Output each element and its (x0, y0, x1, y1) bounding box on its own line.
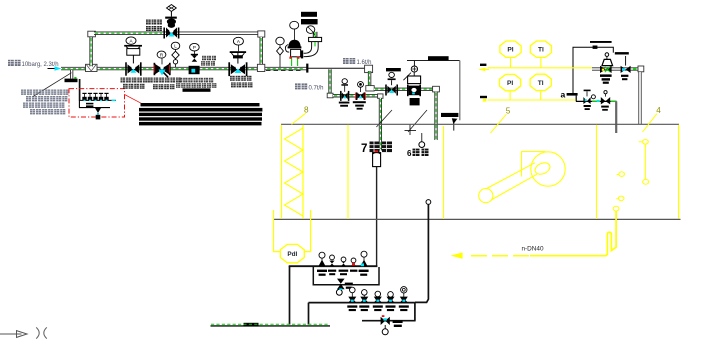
filter right wall yellow (302, 125, 304, 219)
branch valve SV1 (340, 84, 349, 101)
svg-text:PdI: PdI (287, 251, 297, 258)
BV1 label bar (386, 68, 401, 71)
humidifier branch green trace (329, 70, 331, 93)
reheat elbow down (615, 101, 617, 133)
coil downpipe right (638, 72, 642, 124)
PRV1 instrument bubble P (190, 43, 200, 51)
humidifier feed green trace (334, 95, 379, 97)
manifold1 valve 5 (359, 251, 369, 276)
heating feed pipe horizontal (374, 88, 435, 91)
main line flange before PRV station (306, 64, 308, 73)
legend break symbol (36, 327, 47, 338)
manifold1 valve 2 (328, 255, 336, 275)
bypass valve V2 label (146, 20, 162, 32)
drain stub pipe (70, 70, 73, 79)
ST1 label (148, 78, 181, 90)
bubble TI 2 (530, 74, 551, 90)
svg-text:TI: TI (538, 80, 544, 87)
bypass riser elbow (88, 31, 96, 37)
coil elbow right (638, 66, 644, 72)
bypass top pipe green trace (95, 32, 162, 34)
duct probe label bar (441, 113, 458, 117)
pressure reducing valve PRV1 (189, 51, 200, 74)
manifold2 valve 4 (386, 292, 396, 312)
fan motor (479, 189, 493, 203)
heating coil downpipe green trace (435, 93, 437, 140)
SV1 circle (342, 79, 347, 84)
heater symbol leader (408, 110, 427, 132)
filter zigzag (285, 128, 304, 216)
bubble PI 1 (500, 41, 521, 57)
diamond symbol under L (172, 51, 179, 59)
manifold2 valve 3 (373, 291, 383, 311)
branch elbow E4 (366, 86, 374, 91)
valve V7 top bar (615, 52, 629, 54)
heater label 6 jiare (407, 149, 429, 158)
humidifier branch elbow (327, 93, 333, 98)
line1 arrow (478, 68, 489, 72)
relief pilot line assembly (301, 26, 322, 59)
svg-text:P: P (193, 45, 196, 50)
fan hub (533, 161, 551, 177)
note leader line (33, 73, 72, 97)
strainer ST1 (154, 58, 171, 77)
control valve CV4 (600, 53, 613, 73)
TI1 stub (540, 57, 542, 67)
branch elbow E3 (365, 65, 373, 72)
humidifier branch downcomer (328, 69, 331, 93)
svg-text:n-DN40: n-DN40 (522, 246, 544, 253)
fan belt drive (481, 163, 537, 201)
svg-text:8: 8 (304, 105, 309, 114)
small circle under diamond (173, 60, 177, 64)
manifold 2 right drop (414, 302, 416, 320)
manifold1 drain valve (336, 279, 352, 296)
svg-text:PI: PI (507, 80, 513, 87)
legend flow arrow (0, 331, 27, 338)
line2 tick (480, 96, 487, 98)
manifold2 valve 5 (399, 287, 409, 312)
duct bottom line (273, 218, 681, 220)
bypass valve V2 diamond symbol (167, 5, 177, 12)
control valve CV3 (403, 72, 421, 105)
heater tick cross (405, 125, 417, 135)
bypass riser green trace (90, 38, 92, 66)
CV3 top circle (411, 66, 417, 72)
condensate riser left (289, 266, 291, 325)
reheat pipe 2 (576, 100, 617, 102)
humidifier drop pipe (379, 98, 382, 151)
CV1 instrument bubble A (126, 37, 136, 44)
main line dashes near PRV station (266, 69, 303, 71)
branch valve SV2 (355, 87, 366, 100)
humidifier steam cylinder (373, 150, 381, 166)
spray header yellow (639, 140, 649, 185)
diamond symbol (277, 47, 284, 55)
instrument line 1 yellow (488, 67, 593, 69)
manifold1 valve 4 (350, 258, 357, 272)
label steam supply 10barg 2.3t/h (8, 60, 59, 68)
PI2 stub (509, 91, 511, 100)
note text line1 (21, 90, 26, 95)
TI2 stub (540, 91, 542, 100)
pilot PRV bell valve (285, 29, 301, 66)
section label 8 (292, 105, 310, 124)
bypass downcomer pipe (260, 37, 263, 66)
PI1 stub (510, 57, 512, 67)
SV1 bars (339, 102, 350, 107)
humidifier feed pipe (333, 94, 378, 97)
note text line2 (26, 96, 31, 101)
humidifier label 7 jiashi (361, 142, 392, 156)
signal line from CV3 (407, 61, 460, 121)
duct divider 2 (443, 126, 445, 219)
svg-text:5: 5 (506, 106, 511, 115)
svg-text:10barg, 2.3t/h: 10barg, 2.3t/h (22, 62, 59, 68)
spec text block small (176, 78, 216, 92)
label steam 0.7t/h (295, 83, 324, 91)
instrument diamond stack (279, 45, 281, 68)
bubble PdI (280, 244, 304, 262)
valve SV4 (592, 91, 616, 105)
SV3 bars (584, 105, 591, 110)
trap manifold assembly (79, 93, 116, 120)
section label 4 (643, 106, 662, 132)
line1 tick (480, 64, 486, 66)
svg-text:0.7t/h: 0.7t/h (309, 85, 324, 91)
bypass top pipe (94, 32, 259, 35)
humidifier feed elbow (378, 94, 383, 98)
tee fitting T1 (86, 64, 98, 71)
valve V7 (621, 56, 637, 73)
drain point circle (613, 206, 619, 211)
svg-text:L: L (174, 43, 177, 48)
duct divider 1 (347, 125, 349, 219)
drain nozzle 2 (616, 196, 624, 201)
PdI tap right (304, 210, 311, 252)
condensate dashed run (466, 255, 529, 257)
control valve CV1 (124, 45, 142, 76)
controller label bar (590, 41, 612, 43)
heater sensor circle (419, 133, 425, 148)
main steam pipe (61, 67, 307, 70)
fan scroll (522, 152, 566, 187)
note text line4 (30, 109, 35, 114)
heating coil downpipe (434, 92, 437, 140)
CV2 label (230, 76, 253, 88)
bypass globe valve V2 body (163, 28, 179, 39)
ST1 instrument bubble R (157, 51, 166, 58)
bubble PI 2 (500, 74, 521, 90)
node a elbow bar (567, 93, 578, 101)
manifold 1 pipe (289, 265, 378, 267)
branch valve BV1 (385, 78, 398, 95)
PRV1 side label (201, 56, 216, 66)
condensate riser mid (308, 303, 310, 325)
heating feed green trace (375, 88, 433, 90)
svg-text:PI: PI (507, 47, 513, 54)
svg-text:4: 4 (656, 106, 661, 115)
SV2 bars (353, 101, 366, 109)
humidifier drop green trace (379, 99, 381, 149)
CV1 label (121, 78, 148, 89)
CV4 bars (600, 74, 612, 83)
manifold 2 bottom line (362, 320, 416, 322)
small circle between valves (591, 95, 595, 99)
bubble at diamond stack (276, 37, 284, 45)
drain valve blob (65, 77, 78, 82)
thin main line to branch elbow (307, 67, 367, 69)
controller box signal loop (573, 46, 613, 94)
svg-text:7: 7 (361, 143, 367, 155)
manifold1 valve 3 (339, 257, 349, 275)
condensate header green trace (211, 323, 329, 325)
red leader line (125, 95, 142, 104)
sensor arrow into duct (452, 118, 458, 130)
manifold2 drain valve (381, 315, 403, 335)
line2 yellow square (483, 99, 487, 102)
red dash-dot detail box (69, 89, 125, 117)
duct top line (281, 123, 679, 125)
condensate arrow (451, 252, 463, 258)
pilot PRV instrument bubble (290, 21, 299, 29)
bypass elbow down E2 (258, 31, 265, 37)
PRV station label bars (301, 12, 318, 25)
svg-text:TI: TI (538, 47, 544, 54)
branch downcomer 1.6 (368, 71, 371, 87)
duct right wall (678, 125, 680, 219)
CV2 instrument bubble A (233, 37, 243, 45)
duct divider 3 (596, 125, 598, 219)
manifold2 valve 1 (347, 287, 357, 311)
SV2 circle (358, 82, 364, 88)
bypass valve V2 actuator (165, 12, 177, 28)
bypass riser pipe (89, 36, 92, 67)
filter left wall yellow (281, 125, 283, 219)
signal line label bar (428, 56, 449, 60)
tee fitting T2 (257, 64, 264, 71)
coil pipe right (592, 67, 643, 70)
humidifier leader line (376, 110, 392, 127)
SV4 bars (601, 106, 609, 111)
manifold 1 box (313, 267, 379, 285)
branch downcomer 1.6 green trace (369, 71, 371, 86)
duct sensor probe (415, 200, 431, 303)
BV1 instrument circle (389, 72, 395, 77)
humidifier drain line (376, 167, 378, 267)
shut-off valve CV2 (228, 51, 247, 76)
manifold2 valve 2 (359, 290, 369, 312)
svg-text:a: a (561, 90, 566, 100)
bubble TI 1 (530, 41, 551, 57)
drain drop line (79, 79, 81, 101)
section label 5 (491, 106, 511, 133)
instrument L stack (175, 49, 177, 67)
spec text bars block (139, 103, 262, 125)
heating coil elbow E5 (433, 86, 440, 92)
steam inlet arrow (48, 66, 62, 71)
drain nozzle 1 (617, 172, 625, 177)
PdI tap left (274, 210, 281, 252)
bubble L (171, 42, 180, 49)
note text line3 (23, 103, 28, 108)
instrument line 2 yellow (488, 99, 576, 101)
condensate drain with U trap (530, 211, 616, 256)
label steam 1.6t/h (343, 58, 372, 66)
valve SV3 (583, 90, 590, 104)
main steam pipe green trace (62, 68, 303, 70)
bypass downcomer green trace (260, 38, 262, 64)
manifold1 valve 1 (317, 252, 327, 276)
V7 bars (621, 75, 628, 81)
svg-text:6: 6 (407, 149, 412, 158)
manifold 2 pipe (309, 302, 415, 304)
condensate header bottom (211, 323, 331, 326)
